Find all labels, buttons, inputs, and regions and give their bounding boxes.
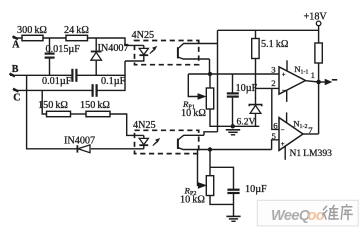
pin5 step wire	[272, 140, 279, 150]
wire output bus down	[318, 81, 320, 135]
svg-text:1: 1	[311, 70, 315, 80]
RP2 wiper arrowhead	[198, 183, 205, 188]
resistor 24k body	[66, 35, 88, 40]
input terminal C tick	[13, 89, 19, 92]
svg-text:2: 2	[271, 78, 275, 88]
wire A input	[13, 37, 22, 39]
svg-text:IN4007: IN4007	[64, 136, 95, 147]
N1-1 power stub bottom	[286, 90, 288, 102]
LED U1 anode stub	[143, 45, 145, 48]
ground symbol bottom	[226, 215, 240, 217]
junction dot emitter RP1	[208, 72, 212, 76]
wire LED U1 cathode	[125, 55, 144, 61]
capacitor C1 0.015uF plates	[45, 52, 55, 54]
phototransistor U1 emitter	[178, 57, 210, 59]
wire emitter down to node	[209, 59, 211, 74]
svg-text:0.01µF: 0.01µF	[42, 76, 72, 87]
LED U2 cathode bar	[139, 144, 148, 146]
svg-text:−: −	[282, 88, 286, 95]
svg-text:C: C	[13, 93, 20, 104]
potentiometer RP2 body	[206, 176, 213, 196]
wire C4 to ground line	[232, 98, 234, 127]
LED U2 anode stub	[143, 135, 145, 138]
svg-text:6: 6	[273, 121, 278, 131]
diode D2 IN4007 triangle	[78, 145, 90, 153]
pin2 reference line	[256, 87, 279, 89]
svg-text:10 kΩ: 10 kΩ	[180, 195, 205, 206]
svg-text:oo: oo	[308, 208, 325, 224]
wire B right segment	[76, 74, 125, 76]
wire LED1 cathode drop	[124, 61, 126, 90]
svg-text:IN4007: IN4007	[98, 43, 129, 54]
wire collector U2 jog	[204, 132, 218, 136]
svg-text:10 kΩ: 10 kΩ	[181, 108, 206, 119]
ground symbol middle	[226, 129, 240, 131]
wire A to C1	[49, 38, 51, 53]
svg-text:B: B	[12, 64, 19, 75]
watermark WeeQoo	[257, 200, 358, 226]
LED U2 light arrow	[153, 141, 158, 146]
svg-text:0.1µF: 0.1µF	[101, 76, 126, 87]
wire rail to R3	[255, 30, 257, 38]
junction dot RP2 top	[208, 147, 212, 151]
output arrowhead	[325, 80, 331, 85]
wire C left segment	[14, 89, 93, 91]
svg-text:6.2V: 6.2V	[237, 117, 256, 128]
svg-text:0.015µF: 0.015µF	[46, 44, 81, 55]
op-amp N1-1 triangle	[279, 67, 306, 94]
optocoupler U1 4N25 dashed box	[135, 41, 199, 65]
wire pin2 to pin6	[272, 88, 279, 129]
LED U1 light arrow	[150, 49, 155, 54]
svg-text:10µF: 10µF	[245, 184, 267, 195]
wire RP2 top	[209, 150, 211, 176]
svg-text:+18V: +18V	[304, 12, 328, 23]
wire LED U2 cathode	[143, 145, 145, 149]
svg-text:150 kΩ: 150 kΩ	[80, 100, 110, 111]
wire C to 150k	[42, 90, 46, 114]
wire R3 down	[255, 59, 257, 105]
output arrow line	[319, 81, 326, 83]
resistor 150k first body	[47, 111, 71, 116]
svg-text:A: A	[12, 40, 20, 51]
capacitor C3 0.1uF plates	[91, 84, 93, 97]
LED U1 cathode bar	[139, 54, 148, 56]
wire C1 to B line	[49, 59, 51, 76]
node line to pin3	[188, 73, 278, 75]
wire RP1 bottom to ground line	[210, 109, 259, 126]
potentiometer RP1 body	[206, 88, 213, 109]
N1-1 power stub top	[286, 60, 288, 71]
phototransistor U1 collector	[178, 44, 218, 49]
wire RP2 wiper	[198, 150, 199, 186]
wire A to D1	[95, 38, 97, 51]
LED U1 triangle	[139, 48, 148, 54]
wire 150k to LED2 corner	[110, 114, 144, 135]
wire C right segment	[97, 89, 126, 91]
diode D1 IN4007 triangle	[91, 52, 102, 60]
wire D2 to LED2 cathode	[91, 148, 144, 150]
input terminal B tick	[10, 74, 16, 77]
wire 24k-corner	[88, 37, 126, 39]
wire node to C4	[232, 74, 234, 93]
op-amp N1-2 triangle	[279, 118, 303, 151]
optocoupler U2 4N25 dashed box	[135, 130, 199, 153]
diode D1 IN4007 cathode bar	[91, 51, 102, 53]
wire B left segment	[10, 74, 72, 76]
capacitor C2 0.01uF plates	[71, 69, 73, 82]
resistor R3 5.1k body	[252, 39, 259, 59]
zener D3 triangle	[250, 105, 261, 113]
N1-2 power stub bottom	[284, 147, 286, 160]
LED U2 triangle	[139, 138, 148, 144]
svg-text:N1 LM393: N1 LM393	[290, 148, 333, 159]
capacitor C5 10uF plates	[227, 189, 239, 191]
phototransistor U2 base bar	[177, 139, 179, 149]
svg-text:4N25: 4N25	[132, 30, 155, 41]
svg-text:+: +	[281, 141, 285, 148]
wire rail down left	[217, 30, 219, 132]
svg-text:300 kΩ: 300 kΩ	[17, 25, 47, 36]
phototransistor U2 emitter	[178, 148, 272, 150]
svg-text:WeeQ: WeeQ	[271, 208, 311, 224]
N1-2 power stub top	[286, 112, 288, 123]
svg-text:10µF: 10µF	[236, 83, 258, 94]
wire 300k-24k	[43, 37, 66, 39]
svg-text:5: 5	[272, 131, 277, 141]
zener D3 cathode bar	[249, 105, 261, 107]
wire C5 to ground	[233, 194, 235, 216]
junction dot ground line	[231, 124, 235, 128]
wire node to RP1 top	[209, 74, 211, 88]
resistor 300k body	[22, 35, 43, 40]
wire RP2 bottom	[210, 196, 234, 205]
RP1 wiper arrowhead	[198, 94, 205, 99]
input terminal A tick	[13, 36, 19, 39]
diode D2 IN4007 bar	[76, 145, 78, 152]
svg-text:−: −	[281, 127, 285, 134]
wire D1 to B line	[95, 60, 97, 75]
svg-text:5.1 kΩ: 5.1 kΩ	[261, 39, 289, 50]
output minus mark	[332, 79, 337, 81]
svg-text:3: 3	[271, 65, 276, 75]
svg-text:+: +	[282, 71, 286, 78]
terminal +18V circle	[316, 21, 321, 26]
wire B down to return line	[27, 75, 77, 149]
wire RP1 wiper	[188, 74, 198, 97]
resistor 150k second body	[86, 111, 110, 116]
resistor R4 pullup body	[315, 43, 322, 63]
wire +18V down	[318, 26, 320, 43]
wire zener to ground line	[255, 113, 257, 126]
wire N1-1 output	[306, 81, 319, 82]
power rail	[218, 29, 319, 31]
junction dot output	[316, 80, 321, 85]
svg-text:24 kΩ: 24 kΩ	[64, 25, 89, 36]
wire RP2 branch to C5	[210, 167, 234, 189]
svg-text:4N25: 4N25	[133, 120, 156, 131]
svg-text:150 kΩ: 150 kΩ	[38, 100, 68, 111]
wire A corner down to LED1	[125, 38, 144, 45]
wire N1-2 output	[303, 133, 319, 135]
phototransistor U1 base bar	[177, 47, 179, 58]
capacitor C4 10uF plates	[227, 92, 239, 94]
phototransistor U2 collector	[178, 135, 204, 140]
wire R4 to output node	[318, 63, 320, 81]
wire between 150k	[71, 113, 87, 115]
